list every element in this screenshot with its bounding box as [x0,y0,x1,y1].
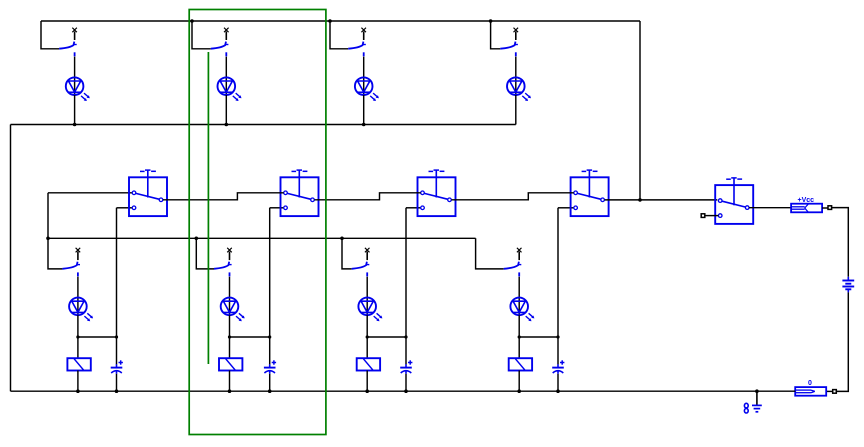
wire S3 to LED D3 [363,57,365,95]
wire contact K4.B stub [558,207,574,209]
wire contact feed col1 [116,208,118,364]
relay contacts K4.A [571,177,609,216]
wire S5 to LED D9 [77,277,79,316]
wire S2 to LED D2 [225,57,227,95]
capacitor C4 [557,364,559,367]
junction jumper left col3 [366,335,369,338]
junction jumper right col4 [556,335,559,338]
wire control bus [48,237,476,239]
relay contacts K2.A [281,177,319,216]
wire terminal to resistor 0 [826,390,833,392]
wire terminal to battery [832,208,849,277]
wire top loop S1 [41,21,59,49]
junction LED bus col2 [225,123,229,127]
wire S7 to LED D11 [366,277,368,316]
pushbutton S8 [517,248,522,253]
terminal +Vcc [828,206,832,210]
terminal K5 NC stub [701,214,705,218]
wire S6 to LED D10 [229,277,231,316]
pushbutton S2 [224,28,229,33]
junction ground bus K2 [228,389,232,393]
relay contacts K3.A [418,177,456,216]
relay contacts K5 [715,185,753,224]
pushbutton S7 [365,248,370,253]
wire contact K1.B stub [117,207,133,209]
relay coil K1 [67,358,90,370]
resistor +Vcc [791,204,822,213]
wire LED D9 to coil K1 [77,315,79,358]
junction top bus col3 [328,19,332,23]
LED D9 [69,298,87,316]
terminal ground side [833,390,837,394]
LED D12 [510,298,528,316]
wire K1 to K2 [163,193,284,200]
junction control bus col1 [46,237,50,241]
wire C1 to ground bus [116,374,118,391]
pushbutton S1 [72,28,77,33]
wire K5 out to fuse [749,207,791,209]
wire K4 to K5 [605,199,718,201]
junction jumper right col1 [115,335,118,338]
wire C3 to ground bus [405,374,407,391]
junction ground bus C3 [404,389,408,393]
capacitor C3 [405,364,407,367]
wire coil K3 to ground bus [366,371,368,392]
LED D11 [358,298,376,316]
wire top loop S4 [491,21,501,49]
wire C4 to ground bus [557,374,559,391]
LED D2 [218,77,236,95]
junction ground symbol [755,389,759,393]
capacitor C2 [269,364,271,367]
wire coil K4 to ground bus [518,371,520,392]
wire top bus [41,20,640,22]
wire jumper col2 [230,336,270,338]
wire ground bus [11,390,796,392]
relay coil K4 [509,358,532,370]
wire top bus right drop [639,21,641,200]
selection box (green) [189,10,326,435]
junction jumper right col3 [404,335,407,338]
wire row2 loop S7 [342,238,352,269]
junction ground bus K1 [76,389,80,393]
relay coil K2 [219,358,242,370]
wire LED D3 to bus [363,95,365,125]
wire jumper col1 [78,336,117,338]
wire S8 to LED D12 [518,277,520,316]
wire riser to K1 contact [48,192,132,194]
junction control bus col3 [340,237,344,241]
wire terminal to K5 [705,215,719,217]
wire battery to ground bus [836,292,848,391]
junction jumper left col2 [228,335,231,338]
junction jumper left col1 [76,335,79,338]
junction jumper left col4 [518,335,521,338]
wire contact feed col2 [269,208,271,364]
wire contact feed col3 [405,208,407,364]
LED D3 [355,77,373,95]
relay coil K3 [357,358,380,370]
wire row2 loop S8 [476,238,504,269]
wire LED return bus [11,124,516,126]
junction LED bus col1 [73,123,77,127]
svg-text:0: 0 [808,380,812,387]
wire contact K3.B stub [406,207,421,209]
junction ground bus C2 [268,389,272,393]
wire left rail [10,125,12,392]
pushbutton S6 [227,248,232,253]
junction jumper right col2 [268,335,271,338]
highlighted wire (green) [207,52,209,364]
junction control bus col2 [195,237,199,241]
wire LED D1 to bus [74,95,76,125]
wire row2 loop S6 [196,238,214,269]
capacitor C1 [116,364,118,367]
wire K2 to K3 [315,193,421,200]
junction top bus col4 [489,19,493,23]
wire LED D10 to coil K2 [229,315,231,358]
svg-text:+Vcc: +Vcc [798,197,815,204]
net label 0 at ground [744,403,748,408]
wire contact K2.B stub [270,207,284,209]
junction ground bus C4 [556,389,560,393]
ground [756,391,758,405]
wire fuse to terminal [822,207,828,209]
wire contact feed col4 [557,208,559,364]
wire C2 to ground bus [269,374,271,391]
pushbutton S3 [361,28,366,33]
wire LED D2 to bus [225,95,227,125]
junction LED bus col3 [362,123,366,127]
wire S1 to LED D1 [74,57,76,95]
battery V1 [847,277,849,281]
junction ground bus C1 [115,389,119,393]
LED D10 [221,298,239,316]
junction top-bus drop [638,198,642,202]
wire top loop S2 [192,21,211,49]
wire K1 input riser [47,193,49,239]
junction top bus col2 [190,19,194,23]
LED D1 [66,77,84,95]
junction ground bus K4 [517,389,521,393]
wire coil K2 to ground bus [229,371,231,392]
resistor 0 [795,387,826,396]
wire S4 to LED D4 [515,57,517,95]
wire row2 loop S5 [48,238,62,269]
wire LED D4 to bus [515,95,517,125]
LED D4 [507,77,525,95]
wire K3 to K4 [452,193,574,200]
junction ground bus K3 [365,389,369,393]
relay contacts K1.A [129,177,167,216]
pushbutton S5 [76,248,81,253]
wire coil K1 to ground bus [77,371,79,392]
wire LED D12 to coil K4 [518,315,520,358]
wire jumper col4 [519,336,558,338]
wire jumper col3 [367,336,406,338]
wire LED D11 to coil K3 [366,315,368,358]
pushbutton S4 [514,28,519,33]
wire top loop S3 [330,21,348,49]
